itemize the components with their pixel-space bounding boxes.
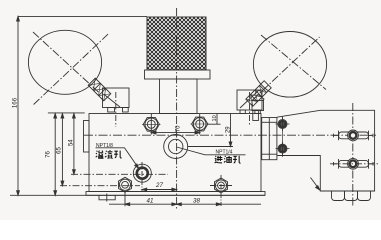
label inlet port text	[215, 156, 241, 163]
side view vertical centerline	[352, 103, 354, 207]
bolt B4 circles	[215, 180, 226, 191]
dim 10 line	[216, 114, 218, 125]
dim 41/38 line	[109, 203, 261, 205]
valve block body (front view)	[89, 114, 261, 192]
dim 65 line	[61, 114, 63, 186]
fitting F1 foot left	[108, 108, 115, 113]
svg-text:NPT1/8: NPT1/8	[96, 143, 113, 149]
stud T1 end ticks	[334, 131, 374, 141]
port hole P1 v-centerline	[141, 162, 143, 191]
bolt B2 top-right hex	[192, 117, 208, 131]
gauge G2 crosshair SW-NE	[253, 37, 320, 100]
dim 65 arrows	[61, 114, 64, 186]
fitting F1 foot right	[123, 108, 129, 113]
stud T1 hex nut	[348, 130, 359, 141]
svg-text:NPT1/4: NPT1/4	[216, 149, 233, 155]
dim 166 extension top	[18, 15, 147, 17]
bolt B1 centerline	[150, 114, 152, 135]
gauge G1 circle left	[28, 30, 101, 94]
side bolts connecting centerline	[282, 116, 284, 157]
svg-text:29: 29	[225, 126, 231, 133]
fitting F2 foot right	[255, 110, 260, 114]
stud T2 hex nut	[348, 158, 359, 169]
fitting F1 centerline	[115, 92, 117, 127]
knob knurled cap	[147, 17, 206, 70]
bolt B2 centerline	[199, 114, 201, 135]
weld bracket under base	[99, 194, 115, 202]
stud T2 centerline	[330, 163, 378, 165]
dim 41/38 extension left	[124, 192, 126, 206]
side view: gauge stem fitting	[252, 101, 264, 111]
svg-text:65: 65	[57, 147, 63, 154]
knob stem	[160, 79, 198, 114]
dim 29 line	[230, 114, 232, 147]
dim 76 arrows	[54, 114, 57, 196]
bolt B4 bottom-right hex	[215, 178, 228, 193]
svg-text:70: 70	[176, 125, 182, 132]
dim 54 line	[73, 114, 75, 175]
plate inner horizontal lines	[262, 121, 277, 123]
bolt B2 circles	[193, 118, 206, 131]
side view: stem strip	[253, 111, 259, 121]
dim 166 arrows	[17, 16, 20, 195]
label NPT1/8 leader	[96, 148, 139, 169]
knob rim	[145, 70, 211, 79]
corner leader arrow	[311, 178, 320, 191]
label overflow port text	[96, 150, 122, 158]
knob cap outline	[147, 17, 206, 70]
svg-text:27: 27	[155, 182, 163, 189]
side bolt S1 rosette	[280, 121, 286, 127]
port hole P1 circles	[133, 164, 151, 182]
stud T2 end ticks	[334, 159, 374, 169]
svg-text:41: 41	[147, 198, 154, 205]
block base plate	[86, 192, 265, 196]
side view: body outline	[277, 110, 375, 191]
dim 41 arrows	[125, 203, 221, 206]
block horizontal centerline	[84, 134, 376, 136]
port hole P1 h-centerline	[71, 173, 168, 175]
side view: fitting cap angled	[252, 95, 264, 102]
fitting F2 ladder (right gauge connector)	[246, 81, 271, 106]
svg-text:10: 10	[212, 115, 218, 121]
fitting F2 inner diagonal	[240, 91, 258, 108]
bolt B1 circles	[145, 118, 158, 131]
stud T1 body	[339, 132, 369, 139]
main axis centerline	[176, 8, 178, 209]
dim 27 arrows	[142, 188, 177, 191]
fitting F2 body	[237, 90, 262, 110]
dim 10 extension	[208, 123, 221, 125]
label NPT1/4 leader	[177, 147, 246, 155]
svg-text:38: 38	[193, 197, 200, 204]
dim 76 line	[54, 114, 56, 196]
gauge G2 circle right	[253, 32, 326, 98]
bolt B3 centerline	[60, 185, 140, 187]
bolt B3 bottom-left hex	[119, 177, 132, 192]
bolt B4 v-centerline	[220, 175, 222, 206]
fitting F1 ladder (left gauge connector)	[88, 78, 111, 101]
fitting F2 foot left	[240, 110, 245, 114]
plate inner vertical line	[268, 118, 270, 160]
svg-text:166: 166	[12, 97, 19, 108]
dim 70 line	[151, 132, 199, 134]
gauge G1 crosshair NW-SE	[33, 32, 99, 93]
bolt B4 centerline	[210, 185, 232, 187]
side view feet	[332, 191, 345, 201]
dims 76/65/54 top extension	[48, 112, 85, 114]
fitting F1 inner diagonal	[104, 94, 121, 107]
fitting F1 body	[103, 88, 130, 108]
svg-text:54: 54	[68, 139, 74, 146]
gauge G2 crosshair NW-SE	[261, 35, 326, 90]
fitting F2 centerline	[249, 92, 251, 125]
stud T2 body	[339, 160, 369, 167]
block left tab	[84, 121, 90, 153]
boss central circles	[164, 135, 188, 159]
base bottom extension line	[10, 194, 265, 196]
bolt B1 top-left hex	[143, 117, 159, 131]
dim 70 arrows	[151, 131, 199, 134]
dim 27 line	[142, 189, 177, 191]
svg-text:76: 76	[46, 151, 52, 158]
dim 29 extension	[188, 146, 233, 148]
dim 29 arrow	[229, 142, 232, 147]
bolt B3 circles	[119, 179, 130, 190]
dim 166 line	[17, 16, 19, 195]
side view: mounting plate	[262, 118, 277, 160]
dim 54 arrows	[73, 114, 76, 175]
side bolt S2 rosette	[280, 146, 286, 152]
gauge G1 crosshair SW-NE	[34, 34, 109, 105]
